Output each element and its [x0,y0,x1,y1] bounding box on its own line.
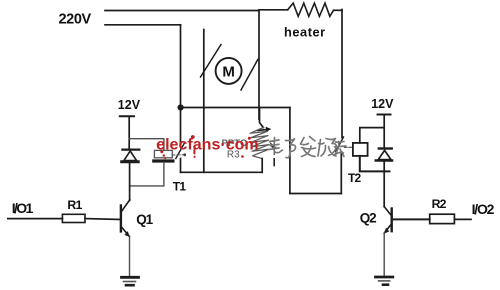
wire coil T2 bottom branch [360,156,390,172]
resistor R3 knot tick [273,146,275,155]
resistor R2 box [430,214,455,223]
svg-text:220V: 220V [59,12,92,28]
resistor R3 knot arrowhead [270,142,277,148]
resistor R3 sketchy zigzag [250,128,270,159]
resistor R3 bottom lead [261,159,263,173]
svg-text:M: M [222,64,235,81]
wire Q2 emitter down [383,233,385,276]
svg-text:elecfans·com: elecfans·com [156,136,259,153]
transistor Q2 base bar [391,209,393,232]
wire bottom horizontal to x290 [290,193,341,195]
wire coil T2 top branch [360,128,384,143]
wire vertical x290 [289,108,291,194]
switch contact T2 slash [336,137,344,152]
switch contact slash right of motor [241,60,258,91]
svg-text:T2: T2 [348,171,362,185]
svg-text:heater: heater [284,25,326,40]
watermark red elecfans.com [156,135,259,159]
wire top rail L1 [105,10,259,12]
wire bottom rail of contact loop [181,171,263,173]
svg-text:I/O2: I/O2 [472,201,495,217]
relay coil T1 box [154,150,172,157]
wire R1 to Q1 base [85,218,121,221]
svg-text:12V: 12V [118,98,141,112]
diode D2 triangle [378,150,391,159]
diode D2 thick base [376,159,392,162]
power rail 12V-R T-bar [378,114,391,116]
wire heater top lead right [334,9,343,11]
linkage dashes T1 [172,154,183,156]
linkage end dot T1 [183,153,186,156]
ground GND1 [122,277,139,285]
transistor Q2 emitter arrowhead [384,228,390,234]
node junction dot [178,104,184,110]
transistor Q1 emitter diagonal [121,226,130,236]
wire main vertical right (diode to Q2) [383,160,385,206]
transistor Q2 collector diagonal [384,207,392,216]
wire contact rail horizontal [181,107,290,109]
wire heater top lead left [259,9,288,11]
wire heater right vertical lower [340,152,342,194]
wire heater right vertical upper [341,10,343,138]
svg-text:T1: T1 [173,180,187,194]
watermark chinese calligraphy 电子发烧友 [269,137,346,158]
power rail 12V-L T-bar [120,115,134,117]
switch contact slash left of motor [201,45,222,78]
wire coil T1 bottom branch [130,163,164,186]
wire coil T1 top branch [129,139,164,151]
wire R2 to I/O2 [454,218,471,220]
diode D2 cathode bar [379,147,392,149]
resistor R3 arrowhead right [266,127,272,132]
resistor R1 box [62,214,85,222]
svg-text:I/O1: I/O1 [12,200,34,216]
transistor Q1 collector diagonal [121,200,130,212]
relay coil T1 core bar [154,159,173,162]
resistor heater zigzag [288,3,334,16]
svg-text:Q2: Q2 [360,211,376,226]
ground GND2 [376,277,393,285]
wire motor-left vertical [203,30,205,173]
wire vertical from L2 corner down to junction [180,25,182,108]
relay coil T2 box [353,143,368,156]
wire 12V-R vertical down [383,115,385,148]
wire I/O1 lead [8,218,63,220]
wire vertical below T1 contact [180,159,182,173]
wire main vertical left (diode to Q1) [129,161,131,200]
transistor Q1 base bar [120,206,122,232]
wire Q1 emitter down [129,237,131,277]
wire Q2 base to R2 [392,218,430,220]
wire vertical from junction down to T1 contact [180,108,182,143]
diode D1 cathode bar [122,149,139,151]
diode D1 triangle [124,151,137,161]
resistor R3 top arrow stroke [258,129,269,132]
svg-text:12V: 12V [371,97,394,111]
wire motor-right vertical (from 220V corner) [258,11,260,120]
switch contact T1 slash [176,144,184,159]
diode D1 thick base [122,160,139,163]
motor M1 circle [216,58,242,84]
linkage dashes T2 [345,146,353,148]
wire 12V-L vertical down [128,117,130,149]
svg-text:Q1: Q1 [136,212,153,227]
wire top rail L2 [105,24,181,26]
resistor R3 tail mark [273,159,275,166]
transistor Q2 emitter diagonal [384,224,392,234]
resistor R3 top lead [260,108,264,128]
transistor Q1 emitter arrowhead [124,231,129,237]
svg-text:R2: R2 [432,197,447,211]
svg-text:R1: R1 [67,198,82,212]
